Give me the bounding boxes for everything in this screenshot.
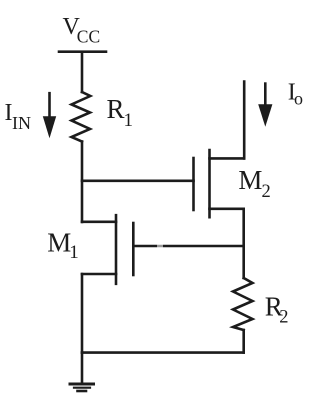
- wire node A to M2 gate: [82, 180, 194, 183]
- wire R2 bottom to ground rail: [242, 330, 245, 353]
- svg-text:2: 2: [262, 182, 271, 202]
- label I_IN: [5, 100, 32, 133]
- label R1: [107, 94, 134, 131]
- current arrow I_IN: [43, 93, 56, 138]
- svg-text:IN: IN: [12, 113, 31, 133]
- resistor R2: [233, 278, 253, 330]
- transistor M2: [194, 150, 245, 217]
- label M1: [47, 228, 79, 264]
- label R2: [265, 292, 289, 328]
- wire R1 bottom to node A / M1 drain: [81, 142, 84, 223]
- label Io: [288, 80, 303, 109]
- transistor M1: [82, 215, 133, 284]
- svg-text:R: R: [107, 94, 125, 124]
- current arrow Io: [258, 84, 272, 127]
- svg-text:CC: CC: [77, 27, 100, 47]
- svg-text:1: 1: [69, 242, 79, 263]
- resistor R1: [72, 92, 91, 142]
- svg-text:o: o: [294, 89, 303, 109]
- svg-text:2: 2: [279, 308, 288, 328]
- ground: [70, 353, 94, 391]
- svg-text:1: 1: [124, 110, 134, 131]
- ground rail: [82, 351, 244, 354]
- label VCC: [63, 14, 101, 47]
- svg-text:M: M: [47, 228, 71, 258]
- wire node A to M1 drain: [82, 221, 116, 224]
- wire M2 source to node B: [242, 209, 245, 278]
- wire M1 source to ground rail: [81, 274, 84, 353]
- wire M2 drain to Io terminal: [243, 82, 246, 159]
- power rail VCC: [59, 50, 106, 53]
- wire M1 gate to node B: [133, 244, 243, 249]
- wire VCC rail to R1 top: [81, 52, 84, 92]
- label M2: [238, 165, 270, 202]
- svg-text:M: M: [238, 165, 262, 195]
